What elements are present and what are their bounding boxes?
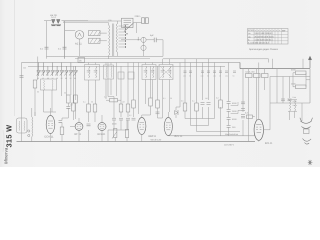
- wire mains top: [44, 20, 88, 22]
- svg-text:ECL11: ECL11: [265, 142, 273, 145]
- wire V2: [70, 118, 79, 142]
- lamp La2: [56, 20, 61, 26]
- capacitor C8: [156, 112, 160, 114]
- capacitor C1 0,1: [45, 47, 49, 49]
- svg-text:Wechselstrom: Wechselstrom: [225, 133, 238, 136]
- ground bus: [17, 141, 256, 143]
- IFT3 winding a: [163, 66, 164, 78]
- svg-text:15: 15: [52, 77, 54, 80]
- svg-text:500: 500: [23, 67, 26, 70]
- T2 core: [288, 100, 297, 112]
- wire V6 bottom: [259, 103, 270, 142]
- wire x272 x277 stubs above bus: [273, 59, 304, 69]
- bias network caps column: [227, 102, 231, 128]
- V4 electrodes: [140, 123, 145, 130]
- svg-text:30: 30: [47, 77, 49, 80]
- svg-text:0,5: 0,5: [181, 100, 184, 103]
- svg-text:Ug: Ug: [248, 35, 250, 38]
- horizontal line y135.8: [168, 135, 254, 137]
- svg-text:15: 15: [70, 77, 72, 80]
- band coil windings: [44, 80, 53, 90]
- misc labels left band: [23, 67, 132, 118]
- svg-text:0,3: 0,3: [216, 97, 219, 100]
- svg-text:2M: 2M: [70, 104, 73, 107]
- capacitor C15 on left rail: [20, 76, 24, 78]
- IFT2 trimmers: [144, 71, 155, 73]
- svg-text:0,1: 0,1: [83, 101, 86, 104]
- transformer T1 core: [112, 24, 114, 57]
- resistor top labels: [163, 97, 219, 103]
- resistor R10 horizontal: [110, 99, 118, 102]
- wire drops x62-75: [62, 76, 76, 100]
- switch arm S2: [124, 23, 134, 32]
- selector pads: [125, 25, 127, 48]
- svg-text:Ik: Ik: [248, 38, 250, 41]
- horizontal line y131.5: [197, 131, 241, 133]
- second bus: [28, 65, 225, 67]
- svg-text:ECL 11: ECL 11: [175, 135, 184, 138]
- wire IFT3: [163, 59, 170, 112]
- wire x208 drop: [208, 59, 210, 126]
- svg-text:100: 100: [225, 75, 228, 78]
- IFT3 cross wires: [160, 66, 173, 79]
- wire bias links: [231, 102, 241, 114]
- wire right bus drop: [309, 69, 311, 103]
- wire R21 to V6: [253, 116, 255, 118]
- wire x138 drop: [138, 63, 140, 115]
- diode symbol D1: [175, 110, 179, 115]
- electrolytic C50b: [141, 45, 146, 50]
- svg-text:ECH 11: ECH 11: [45, 136, 54, 139]
- power section bottom rail: [47, 55, 164, 57]
- tube V5 ECL11: [164, 118, 172, 136]
- svg-text:50: 50: [64, 92, 66, 95]
- wire to rectifier anode: [65, 30, 75, 32]
- wire right resistor drops: [249, 69, 265, 142]
- resistor R7: [72, 103, 76, 111]
- IFT1 trimmers: [87, 71, 98, 73]
- capacitor C12: [281, 99, 292, 101]
- resistor R14: [132, 100, 136, 108]
- svg-text:Spannungen gegen Chassis: Spannungen gegen Chassis: [249, 48, 279, 51]
- IFT3 trimmers: [161, 71, 172, 73]
- svg-text:EBF11: EBF11: [149, 135, 157, 138]
- resistor R23 horizontal: [296, 85, 307, 89]
- wire HT rail right: [146, 40, 163, 57]
- wire R11: [120, 66, 122, 117]
- IFT2 winding a: [146, 66, 147, 78]
- svg-text:Feld: Feld: [293, 96, 297, 99]
- svg-text:EF 11: EF 11: [75, 133, 82, 136]
- potentiometer P1: [112, 129, 117, 139]
- speaker magnet: [304, 129, 310, 134]
- cap marks right band row: [184, 71, 237, 72]
- tube V1 ECH11: [46, 116, 55, 134]
- resistor R16: [156, 100, 160, 108]
- resistor R6: [60, 127, 64, 135]
- wire diode: [176, 63, 180, 119]
- resistor R11: [119, 104, 123, 112]
- tube V2 EBF11: [75, 123, 83, 131]
- table row headers: [248, 32, 251, 41]
- right output bus: [240, 63, 310, 69]
- output transformer T2 winding: [290, 100, 296, 111]
- wire R6: [62, 118, 68, 142]
- svg-text:0,1 0,1 50: 0,1 0,1 50: [246, 71, 256, 74]
- left long rail drop: [21, 63, 23, 142]
- svg-text:Wech 6,3V: Wech 6,3V: [151, 138, 162, 141]
- capacitor C5: [87, 124, 91, 126]
- rectifier tube AZ11: [75, 31, 84, 40]
- capacitor C10: [207, 103, 211, 105]
- wire mains left drop: [46, 21, 48, 59]
- wire P1: [114, 138, 116, 142]
- horizontal line y118.5: [185, 118, 215, 120]
- V2 electrodes: [77, 125, 81, 129]
- tube V4 EBF11: [138, 118, 146, 135]
- coil box 2: [104, 65, 114, 79]
- svg-text:30: 30: [56, 77, 58, 80]
- svg-text:16: 16: [79, 60, 82, 63]
- capacitor C13: [241, 102, 245, 104]
- resistor R5: [74, 95, 78, 103]
- wire x133 drop: [133, 63, 135, 118]
- wire mains pair upper: [63, 20, 121, 22]
- wire cap row drops: [108, 63, 128, 142]
- mains plug squares: [142, 18, 149, 24]
- wire electrolytics link: [143, 42, 145, 56]
- faint smudge left bottom: [3, 130, 4, 152]
- wire V1 top: [44, 108, 57, 142]
- capacitor C14: [241, 109, 245, 111]
- IF transformer 2 box: [142, 65, 156, 80]
- wire drop x38: [37, 57, 39, 81]
- oscillator coil L2: [32, 117, 33, 137]
- table header ticks: [255, 29, 286, 31]
- svg-text:2,5 6,3 100 2 100 8 2: 2,5 6,3 100 2 100 8 2: [255, 32, 273, 35]
- wire mains pair lower: [63, 22, 109, 24]
- wire R13: [126, 120, 128, 142]
- fuse box F1: [122, 18, 134, 27]
- wire HT to electrolytics: [121, 37, 141, 40]
- wire x243 drop: [242, 69, 244, 136]
- row of resistors on right bus R20: [246, 74, 269, 78]
- IF transformer 3 box: [159, 65, 173, 80]
- tube data table: [248, 29, 289, 45]
- horizontal line y125.5: [191, 125, 209, 127]
- wire x202 drop: [202, 63, 204, 119]
- wire x116 drop: [116, 63, 118, 97]
- wire L2 bottom: [31, 137, 33, 142]
- V6 electrodes: [256, 125, 261, 133]
- coupler box B: [128, 72, 134, 79]
- svg-text:30: 30: [65, 77, 67, 80]
- wire IFT1 drops: [89, 63, 96, 105]
- svg-text:50: 50: [170, 97, 172, 100]
- capacitor C3: [66, 107, 70, 109]
- svg-text:50: 50: [189, 75, 191, 78]
- wire V3: [101, 115, 103, 142]
- svg-text:1M: 1M: [205, 97, 208, 100]
- antenna arrow right: [308, 57, 311, 69]
- wire x214 drop: [214, 63, 216, 119]
- svg-text:25: 25: [219, 75, 221, 78]
- node HT: [138, 39, 139, 40]
- svg-text:1M: 1M: [122, 101, 125, 104]
- trimmer labels row: [37, 77, 76, 80]
- svg-text:2500: 2500: [232, 110, 237, 113]
- svg-text:15: 15: [42, 77, 44, 80]
- svg-text:15: 15: [61, 77, 63, 80]
- svg-text:0,3: 0,3: [245, 112, 249, 115]
- node switch pivot: [126, 33, 127, 34]
- wire R12: [127, 63, 129, 118]
- capacitor C7: [132, 118, 136, 120]
- wire V5: [167, 112, 169, 136]
- speaker label column: [293, 96, 298, 107]
- svg-text:50: 50: [91, 101, 93, 104]
- svg-text:315 W: 315 W: [5, 125, 14, 148]
- svg-text:5000: 5000: [232, 102, 237, 105]
- svg-text:AZ 11: AZ 11: [75, 43, 82, 46]
- svg-text:250: 250: [232, 126, 236, 129]
- coupler box A: [118, 72, 124, 79]
- transformer T1 secondary winding: [116, 24, 117, 53]
- wire x185 drop: [184, 59, 186, 119]
- wire R9: [94, 112, 96, 122]
- resistor R3: [33, 80, 37, 88]
- collector mark bottom right: [308, 160, 313, 165]
- V5 electrodes: [166, 123, 171, 130]
- wire V6 top: [258, 63, 260, 120]
- main HT bus: [22, 62, 241, 64]
- voltage selector taps: [119, 26, 126, 47]
- svg-text:S35: S35: [108, 19, 112, 22]
- wire rectifier cathode down: [79, 39, 81, 56]
- lamp La1: [51, 20, 56, 26]
- svg-text:220V~: 220V~: [135, 15, 142, 18]
- wire output network: [277, 69, 310, 103]
- resistor R2 hatched: [89, 38, 101, 43]
- wire T2 to speaker: [290, 103, 303, 121]
- svg-text:2x0,2: 2x0,2: [51, 16, 57, 19]
- T1 primary top lead: [109, 21, 118, 25]
- svg-text:ECH11: ECH11: [248, 29, 255, 32]
- antenna coil box L1: [17, 118, 28, 133]
- battery box on bus: [78, 58, 85, 63]
- capacitor C9: [201, 103, 205, 105]
- capacitor C51: [154, 38, 156, 43]
- svg-text:50: 50: [207, 75, 209, 78]
- grid stopper R21: [247, 115, 253, 118]
- tube V3 ECH11b: [98, 123, 106, 131]
- resistor R8: [87, 104, 91, 112]
- resistor R1 hatched: [89, 31, 101, 36]
- V1 electrodes: [48, 121, 53, 128]
- wire coil drops: [44, 90, 53, 112]
- band coil box: [41, 79, 57, 90]
- wire R7: [72, 66, 74, 120]
- svg-text:4 100 215 8 100 25 4: 4 100 215 8 100 25 4: [255, 38, 273, 41]
- wire fuse right: [133, 23, 142, 33]
- svg-text:80: 80: [37, 91, 39, 94]
- svg-text:5000: 5000: [112, 123, 117, 126]
- wire IFT2: [146, 63, 153, 105]
- resistor R18: [195, 103, 199, 111]
- svg-text:0,1: 0,1: [58, 48, 62, 51]
- electrolytic C50a: [141, 37, 146, 42]
- svg-text:0,4 100 250 100 215 6,3: 0,4 100 250 100 215 6,3: [248, 42, 269, 45]
- capacitor row C6: [112, 118, 130, 120]
- svg-text:25 100 95 100 8 215 6: 25 100 95 100 8 215 6: [255, 35, 274, 38]
- AZ11 filament: [78, 33, 82, 37]
- resistor R9: [93, 104, 97, 112]
- tube V6 ECL11 output: [254, 119, 263, 140]
- wire R1 to transformer: [100, 33, 107, 41]
- transformer T1 primary winding: [109, 25, 110, 56]
- resistor R15: [149, 98, 153, 106]
- jack circles: [28, 130, 30, 137]
- svg-text:5000: 5000: [232, 118, 237, 121]
- horizontal link y115: [142, 104, 163, 118]
- power section bottom rail 2: [75, 58, 150, 60]
- svg-text:110-240 V: 110-240 V: [224, 143, 234, 146]
- resistor R22 horizontal: [296, 71, 307, 75]
- svg-text:ECH11: ECH11: [98, 133, 106, 136]
- capacitor C2 0,1: [63, 47, 67, 49]
- wire mains right drop: [64, 21, 66, 59]
- svg-text:30: 30: [37, 77, 39, 80]
- svg-text:6µF: 6µF: [150, 34, 154, 37]
- svg-text:100: 100: [201, 75, 204, 78]
- svg-text:Schw: Schw: [293, 104, 298, 107]
- resistor R4: [67, 95, 71, 103]
- right band tick labels: [183, 75, 234, 78]
- wire V4: [141, 115, 143, 142]
- svg-text:30: 30: [74, 77, 76, 80]
- svg-text:0,5: 0,5: [129, 114, 132, 117]
- wire x220 drop: [220, 66, 222, 136]
- scan crease line: [14, 0, 16, 116]
- capacitor C11: [241, 115, 245, 118]
- coil box 2 windings: [106, 67, 112, 78]
- grid cap C4: [59, 121, 62, 123]
- bias network labels: [232, 102, 237, 129]
- wire R4 R5 down: [68, 103, 75, 119]
- IF transformer 1 box: [85, 65, 100, 81]
- resistor R13: [125, 130, 128, 138]
- trimmer row C-T1..T9: [37, 63, 78, 77]
- svg-text:mA: mA: [282, 29, 286, 32]
- wire x157 drop: [157, 66, 159, 118]
- wire x190 drop: [190, 63, 192, 126]
- svg-text:Minerva: Minerva: [4, 147, 9, 164]
- T1 bottom leads: [109, 52, 118, 58]
- wire L2 top: [32, 108, 35, 117]
- wire R8 down: [88, 112, 90, 142]
- svg-text:0,1: 0,1: [40, 48, 44, 51]
- IFT2 winding b: [153, 66, 154, 78]
- wire R10: [106, 99, 121, 101]
- svg-text:0,1: 0,1: [104, 96, 107, 99]
- svg-text:0,1: 0,1: [192, 100, 195, 103]
- V3 electrodes: [100, 125, 104, 129]
- wire R3 down: [34, 88, 36, 116]
- IFT3 winding b: [170, 66, 171, 78]
- IFT1 winding b: [96, 66, 97, 78]
- upper rail right half: [163, 59, 269, 63]
- resistor R12: [126, 104, 130, 112]
- svg-text:100: 100: [213, 75, 216, 78]
- wire bias column: [228, 63, 230, 136]
- resistor R19: [219, 100, 223, 108]
- speaker LS cone: [300, 118, 313, 144]
- table body text rows: [248, 32, 273, 44]
- wire coil box 2 drops: [106, 63, 111, 100]
- svg-text:5000: 5000: [293, 100, 297, 103]
- wire x196 drop: [196, 59, 198, 132]
- svg-text:50: 50: [233, 75, 235, 78]
- svg-text:100: 100: [183, 75, 186, 78]
- resistor R17: [183, 103, 187, 111]
- output box outline: [270, 77, 310, 104]
- IFT1 winding a: [89, 66, 90, 78]
- svg-text:0,1: 0,1: [163, 97, 166, 100]
- wire R15: [150, 66, 152, 115]
